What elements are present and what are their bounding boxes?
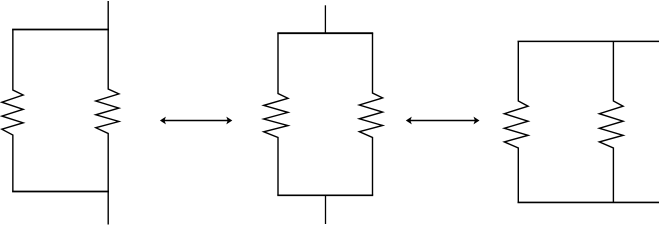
arrow: equivalence arrow 1 (double-headed) bbox=[160, 117, 232, 125]
resistor R4 (right branch, circuit 2) bbox=[359, 33, 382, 195]
wire: circuit 1 top feed (vertical lead above top bus) bbox=[107, 1, 109, 30]
resistor R3 (left branch, circuit 2) bbox=[264, 33, 288, 195]
wire: circuit 2 bottom bus bbox=[277, 194, 373, 196]
wire: circuit 1 bottom feed (vertical lead below bottom bus) bbox=[107, 192, 109, 225]
wire: circuit 1 top bus bbox=[12, 29, 109, 31]
resistor R2 (right branch, circuit 1) bbox=[96, 30, 119, 192]
resistor R1 (left branch, circuit 1) bbox=[2, 30, 23, 192]
wire: circuit 2 bottom terminal stub bbox=[325, 195, 327, 224]
wire: circuit 3 top bus (runs to right edge) bbox=[518, 40, 659, 42]
wire: circuit 2 top bus bbox=[277, 32, 373, 34]
arrow: equivalence arrow 2 (double-headed) bbox=[406, 117, 480, 125]
wire: circuit 2 top terminal stub bbox=[324, 5, 326, 33]
wire: circuit 1 bottom bus bbox=[12, 191, 109, 193]
resistor R5 (left branch, circuit 3) bbox=[504, 41, 528, 202]
resistor R6 (right branch, circuit 3) bbox=[599, 41, 623, 202]
wire: circuit 3 bottom bus (runs to right edge) bbox=[518, 201, 659, 203]
